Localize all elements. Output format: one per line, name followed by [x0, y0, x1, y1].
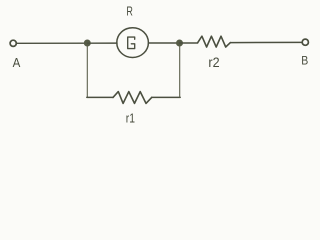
svg-text:R: R	[126, 5, 132, 19]
svg-text:r1: r1	[126, 111, 135, 126]
terminal B	[302, 39, 308, 45]
wire galvanometer to right junction	[149, 42, 180, 44]
terminal A	[10, 40, 16, 46]
wire A to left junction	[17, 42, 88, 44]
wire resistor r2 to terminal B	[230, 41, 301, 43]
wire left junction to galvanometer	[88, 42, 118, 44]
resistor r2	[198, 36, 231, 47]
svg-text:r2: r2	[208, 54, 219, 70]
wire: shunt branch bottom right	[152, 96, 181, 98]
svg-text:B: B	[301, 53, 308, 67]
resistor r1	[113, 92, 152, 104]
svg-text:A: A	[13, 55, 21, 70]
wire: shunt branch bottom left	[87, 96, 113, 98]
node: right junction	[176, 40, 183, 47]
galvanometer (internal resistance R)	[117, 28, 149, 58]
wire: shunt branch right vertical	[179, 46, 181, 97]
galvanometer letter G	[128, 37, 135, 49]
wire right junction to resistor r2	[180, 42, 198, 44]
wire: shunt branch left vertical	[86, 46, 88, 97]
node: left junction	[84, 40, 91, 47]
